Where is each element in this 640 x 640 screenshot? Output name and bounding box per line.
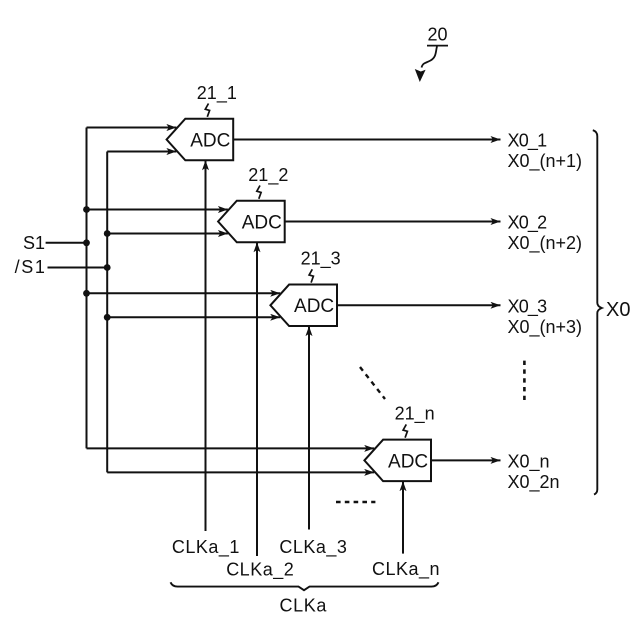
wire /S1 to ADC3 lower input	[107, 316, 280, 318]
wire S1 bus vertical	[86, 128, 88, 449]
dashed continuation vertical	[523, 361, 526, 400]
dashed continuation horizontal	[336, 501, 375, 504]
wire S1 to ADC2 upper input	[87, 209, 228, 211]
svg-text:CLKa_n: CLKa_n	[372, 559, 440, 580]
junction dot bus2 ADC3 branch	[104, 314, 111, 321]
figure label 20	[415, 25, 448, 83]
svg-text:ADC: ADC	[242, 212, 282, 233]
svg-text:CLKa_1: CLKa_1	[172, 537, 240, 558]
svg-text:X0_n: X0_n	[508, 451, 550, 472]
wire /S1 to ADC4 lower input	[107, 471, 374, 473]
wire ADC1 output	[233, 139, 500, 141]
brace CLKa group	[171, 582, 439, 590]
svg-text:X0_3: X0_3	[508, 296, 548, 317]
svg-text:/S1: /S1	[15, 257, 47, 277]
svg-text:20: 20	[427, 25, 447, 45]
svg-text:CLKa: CLKa	[280, 596, 328, 616]
lightning squiggle U1	[205, 104, 209, 117]
wire CLKa_n clock line	[402, 481, 404, 553]
svg-text:CLKa_3: CLKa_3	[279, 537, 347, 558]
wire /S1 to ADC2 lower input	[107, 233, 228, 235]
junction dot bus2 ADC2 branch	[104, 230, 111, 237]
op-amp ADC U1 block	[167, 119, 234, 161]
wire S1 entry	[46, 242, 87, 244]
op-amp ADC U4 block	[364, 440, 431, 482]
junction dot bus1 ADC2 branch	[83, 206, 90, 213]
lightning squiggle U4	[403, 424, 407, 437]
wire ADC3 output	[337, 304, 501, 306]
svg-text:ADC: ADC	[190, 130, 230, 151]
svg-text:X0_(n+3): X0_(n+3)	[508, 317, 583, 338]
wire CLKa_3 clock line	[308, 326, 310, 529]
wire ADC2 output	[285, 221, 501, 223]
wire /S1 entry	[48, 267, 108, 269]
dashed continuation diagonal	[360, 367, 385, 399]
svg-text:X0_(n+2): X0_(n+2)	[508, 233, 583, 254]
wire CLKa_1 clock line	[205, 160, 207, 531]
svg-text:S1: S1	[23, 233, 45, 253]
wire CLKa_2 clock line	[256, 242, 258, 556]
svg-text:X0_(n+1): X0_(n+1)	[508, 151, 583, 172]
svg-text:ADC: ADC	[294, 296, 334, 317]
svg-text:ADC: ADC	[388, 451, 428, 472]
svg-text:21_3: 21_3	[301, 249, 341, 270]
op-amp ADC U2 block	[218, 201, 285, 243]
svg-text:21_n: 21_n	[395, 404, 435, 425]
svg-text:X0_1: X0_1	[508, 131, 548, 152]
junction dot /S1/bus	[104, 264, 111, 271]
wire ADC4 output	[431, 459, 501, 461]
lightning squiggle U2	[257, 186, 261, 199]
op-amp ADC U3 block	[270, 285, 337, 327]
svg-text:X0_2n: X0_2n	[508, 472, 560, 493]
junction dot S1/bus	[83, 239, 90, 246]
lightning squiggle U3	[309, 269, 313, 282]
svg-text:X0_2: X0_2	[508, 213, 548, 234]
svg-text:21_2: 21_2	[248, 165, 288, 186]
wire S1 to ADC1 upper input	[87, 127, 177, 129]
svg-text:21_1: 21_1	[197, 83, 237, 104]
wire S1 to ADC3 upper input	[87, 292, 281, 294]
wire /S1 to ADC1 lower input	[107, 151, 176, 153]
wire S1 to ADC4 upper input	[87, 447, 375, 449]
svg-text:CLKa_2: CLKa_2	[226, 560, 294, 581]
svg-text:X0: X0	[606, 299, 630, 321]
junction dot bus1 ADC3 branch	[83, 290, 90, 297]
brace X0 group	[593, 130, 602, 494]
wire /S1 bus vertical	[106, 152, 108, 473]
